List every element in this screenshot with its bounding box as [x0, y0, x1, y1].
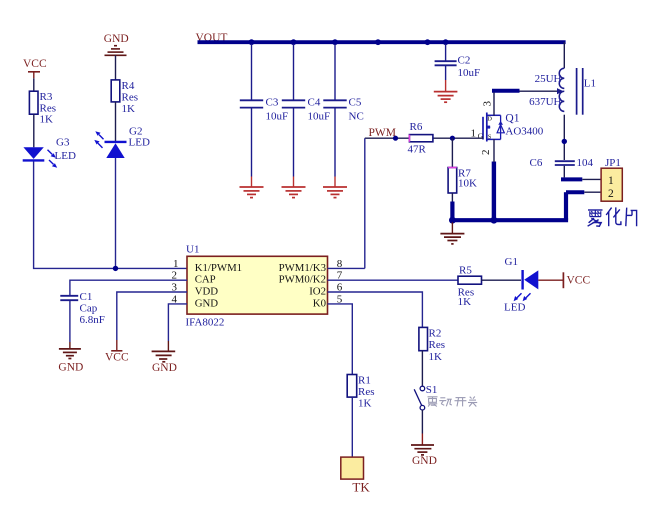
svg-text:LED: LED: [129, 137, 150, 149]
wire L1 bottom to C6: [563, 115, 565, 160]
capacitor C6: [530, 157, 594, 169]
svg-text:1K: 1K: [122, 103, 136, 115]
junction on rail at C3: [249, 39, 255, 45]
capacitor C2: [435, 55, 481, 79]
svg-text:G2: G2: [129, 125, 142, 137]
wire R1 to TK: [351, 397, 353, 457]
svg-text:G3: G3: [56, 136, 70, 148]
svg-text:637UH: 637UH: [529, 96, 561, 108]
svg-text:JP1: JP1: [605, 157, 621, 169]
LED G2: [94, 125, 150, 158]
wire C1 to ground: [69, 301, 71, 349]
svg-text:10uF: 10uF: [458, 67, 481, 79]
wire Q1 drain to L1 tap with arrow: [519, 88, 564, 94]
ground below S1: [411, 445, 437, 467]
svg-text:Res: Res: [429, 339, 446, 351]
wire VOUT to C2: [445, 44, 447, 61]
wire PWM horizontal to R6 and gate: [365, 137, 484, 139]
svg-text:R5: R5: [459, 265, 472, 277]
junction on rail at C4: [291, 39, 297, 45]
svg-text:C6: C6: [530, 157, 543, 169]
IC U1: [172, 243, 343, 328]
ground below C2: [434, 92, 458, 103]
transistor Q1: [483, 113, 544, 142]
wire C2 to ground: [445, 66, 447, 91]
svg-text:Q1: Q1: [505, 113, 519, 125]
svg-text:10uF: 10uF: [266, 111, 289, 123]
svg-text:C5: C5: [349, 97, 362, 109]
svg-text:VDD: VDD: [195, 285, 219, 297]
svg-text:AO3400: AO3400: [505, 126, 543, 138]
svg-text:GND: GND: [152, 362, 177, 374]
label vibration switch 震动开关 (drawn strokes): [428, 397, 478, 407]
svg-text:104: 104: [577, 157, 594, 169]
svg-text:C1: C1: [80, 291, 93, 303]
svg-text:TK: TK: [352, 479, 370, 494]
wire S1 to ground: [421, 410, 423, 445]
ground below bus at R7: [440, 222, 464, 244]
svg-text:GND: GND: [58, 362, 83, 374]
wire thick Q1 source down: [492, 162, 496, 221]
inductor L1: [529, 68, 596, 115]
svg-text:LED: LED: [504, 301, 525, 313]
wire VOUT rail to L1: [563, 42, 565, 68]
junction on L1-C6 wire: [562, 139, 567, 144]
ground at U1 pin4: [152, 351, 177, 374]
svg-text:R6: R6: [410, 121, 423, 133]
ground below C5: [323, 187, 347, 198]
wire U1 pin5 to R1: [328, 304, 353, 375]
wire thick ground bus horizontal: [450, 218, 568, 222]
resistor R7: [448, 167, 477, 193]
svg-text:C2: C2: [458, 55, 471, 67]
junction on rail segment joint: [375, 39, 381, 45]
junction at PWM: [393, 136, 398, 141]
wire U1 pin8 to PWM vertical: [328, 267, 365, 269]
wire R2 to S1: [421, 351, 423, 386]
svg-text:10K: 10K: [458, 178, 477, 190]
svg-text:R2: R2: [429, 327, 442, 339]
wire R5 to G1: [482, 279, 522, 281]
junction on rail at C2: [443, 39, 449, 45]
junction on rail at C5: [332, 39, 338, 45]
power port VCC at pin3: [105, 340, 129, 363]
svg-text:LED: LED: [55, 150, 76, 162]
wire VOUT to C3: [251, 44, 253, 100]
pin number 3 of Q1 (rotated): [482, 101, 494, 107]
svg-text:2: 2: [608, 188, 614, 200]
wire U1 pin7 to R5: [328, 279, 459, 281]
wire JP1 pin1 lead: [582, 178, 601, 180]
wire PWM down to U1 pin8: [364, 138, 366, 268]
wire C6 to JP1 pin1: [563, 166, 565, 178]
svg-text:2: 2: [480, 150, 492, 156]
power port GND top: [104, 33, 129, 55]
wire thick stub JP1 pin2: [566, 190, 584, 194]
wire U1 pin2 to C1: [70, 280, 187, 295]
svg-text:10uF: 10uF: [308, 111, 331, 123]
capacitor C4: [282, 97, 330, 123]
wire VOUT rail (thick): [198, 40, 566, 44]
junction ground bus at R7: [449, 217, 456, 224]
wire VCC to R3: [33, 78, 35, 91]
ground below C3: [240, 187, 264, 198]
svg-text:1K: 1K: [40, 114, 54, 126]
svg-text:R3: R3: [40, 91, 53, 103]
power port VCC top-left: [23, 58, 47, 78]
svg-text:PWM: PWM: [369, 127, 396, 139]
wire R6-R7 junction down to R7: [451, 138, 453, 167]
resistor R5: [458, 265, 482, 308]
svg-text:C3: C3: [266, 97, 279, 109]
pin number 1 G of Q1: [471, 127, 484, 140]
wire Q1 drain lead: [493, 93, 495, 116]
svg-text:3: 3: [482, 101, 494, 107]
svg-text:C4: C4: [308, 97, 321, 109]
svg-text:U1: U1: [186, 243, 199, 255]
resistor R1: [347, 374, 374, 409]
svg-text:Res: Res: [122, 91, 139, 103]
LED G3: [23, 136, 76, 167]
junction on rail segment joint 2: [425, 39, 431, 45]
wire JP1 pin2 lead: [584, 191, 601, 193]
wire R3 to G3: [33, 114, 35, 147]
svg-text:Res: Res: [358, 386, 375, 398]
resistor R6: [408, 121, 433, 156]
resistor R4: [111, 80, 138, 115]
net label PWM: [369, 127, 396, 139]
label atomizer 雾化片 (drawn strokes): [588, 207, 637, 226]
svg-text:IFA8022: IFA8022: [186, 316, 225, 328]
svg-text:VCC: VCC: [23, 58, 47, 70]
svg-text:Cap: Cap: [80, 302, 98, 314]
svg-text:1: 1: [608, 175, 614, 187]
svg-text:G: G: [478, 132, 484, 141]
wire C3 to ground: [251, 109, 253, 187]
resistor R2: [419, 327, 445, 363]
wire C5 to ground: [334, 109, 336, 187]
svg-text:1: 1: [173, 258, 179, 270]
svg-text:6.8nF: 6.8nF: [80, 314, 105, 326]
pad TK: [341, 457, 371, 494]
svg-text:GND: GND: [412, 455, 437, 467]
power port VCC right: [563, 272, 590, 288]
svg-text:S1: S1: [426, 384, 438, 396]
svg-text:K1/PWM1: K1/PWM1: [195, 262, 242, 274]
junction ground bus at Q1 source: [491, 217, 498, 224]
svg-text:D: D: [487, 115, 492, 122]
wire R4 to G2: [115, 102, 117, 141]
ground below C1: [58, 349, 83, 374]
ground below C4: [282, 187, 306, 198]
svg-text:IO2: IO2: [309, 285, 326, 297]
svg-text:L1: L1: [584, 77, 596, 89]
capacitor C5: [323, 97, 363, 123]
svg-text:25UH: 25UH: [535, 73, 562, 85]
switch S1: [414, 384, 437, 410]
svg-text:VCC: VCC: [567, 274, 591, 286]
wire thick R7 to ground bus: [450, 202, 454, 221]
pin number 2 of Q1 (rotated): [480, 150, 492, 156]
net VOUT label: [196, 32, 228, 44]
wire VOUT to C4: [293, 44, 295, 100]
wire thick JP1 pin2 down to ground bus: [564, 192, 568, 220]
wire GND to R4: [115, 55, 117, 80]
svg-text:PWM0/K2: PWM0/K2: [279, 274, 326, 286]
svg-text:1K: 1K: [429, 351, 443, 363]
wire thick drain stub: [492, 89, 520, 93]
junction G2 chain to pin1 wire: [113, 266, 118, 271]
svg-text:CAP: CAP: [195, 274, 216, 286]
svg-text:GND: GND: [195, 297, 219, 309]
svg-text:K0: K0: [313, 297, 326, 309]
wire G2 down to junction: [115, 158, 117, 268]
resistor R3: [29, 91, 56, 126]
wire U1 pin3 to VCC port: [117, 292, 187, 340]
junction at R6-R7: [450, 136, 455, 141]
svg-text:1K: 1K: [458, 296, 472, 308]
svg-text:NC: NC: [349, 111, 364, 123]
wire VOUT to C5: [334, 44, 336, 100]
svg-text:PWM1/K3: PWM1/K3: [279, 262, 326, 274]
wire U1 pin4 to ground: [168, 304, 187, 351]
wire C4 to ground: [293, 109, 295, 187]
svg-text:S: S: [488, 134, 492, 141]
LED G1: [504, 256, 538, 313]
capacitor C1: [60, 291, 105, 326]
connector JP1: [601, 157, 622, 201]
svg-text:1K: 1K: [358, 398, 372, 410]
wire U1 pin6 to R2: [328, 292, 423, 327]
wire G1 to VCC right: [538, 279, 563, 281]
svg-text:R1: R1: [358, 374, 371, 386]
wire Q1 source lead: [493, 139, 495, 162]
wire G3 down and right to U1 pin1: [34, 162, 187, 269]
wire R7 bottom to thick: [451, 193, 453, 202]
svg-text:G1: G1: [505, 256, 518, 268]
svg-text:VCC: VCC: [105, 351, 129, 363]
svg-text:R4: R4: [122, 80, 135, 92]
svg-text:47R: 47R: [408, 143, 427, 155]
wire thick stub JP1 pin1: [561, 177, 582, 181]
capacitor C3: [240, 97, 288, 123]
svg-text:GND: GND: [104, 33, 129, 45]
